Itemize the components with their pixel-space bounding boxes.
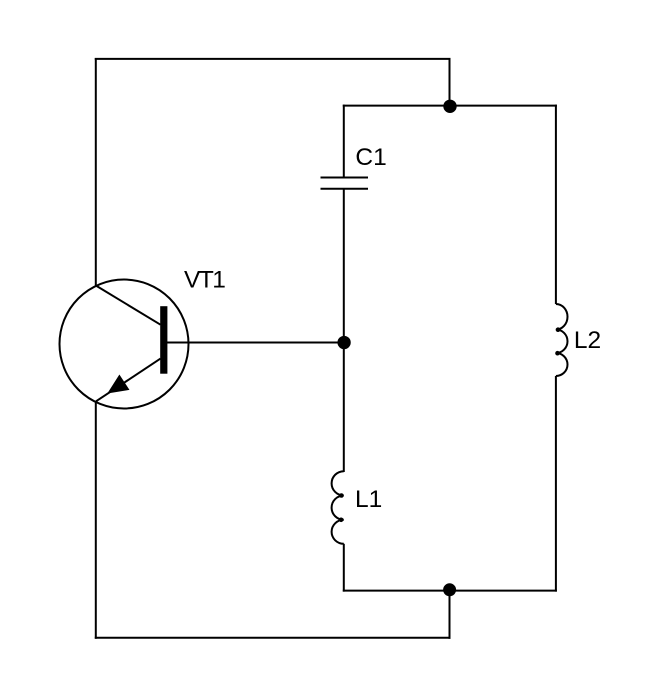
- capacitor C1 bottom plate: [321, 188, 369, 190]
- transistor VT1 base bar: [160, 306, 167, 374]
- wire: tank right branch from L2 down to bottom corner: [555, 376, 557, 592]
- node B: base junction dot: [337, 336, 350, 349]
- svg-text:C1: C1: [355, 144, 386, 171]
- node: top junction dot: [443, 100, 456, 113]
- transistor VT1 collector lead: [96, 286, 161, 325]
- wire: tank left branch from top corner down to C1 top plate: [343, 105, 345, 177]
- wire: tank left branch from C1 bottom plate down to node B: [343, 189, 345, 343]
- svg-text:L2: L2: [574, 327, 601, 354]
- wire: tank loop bottom horizontal: [343, 590, 557, 592]
- inductor L1 (three left-bulging petals): [332, 471, 344, 544]
- wire: outer loop top horizontal: [95, 58, 451, 60]
- svg-text:VT1: VT1: [184, 266, 225, 293]
- wire: tank left branch from node B down to L1: [343, 342, 345, 472]
- node: L1 upper cusp dot: [339, 493, 344, 498]
- node: L2 upper cusp dot: [556, 327, 561, 332]
- wire: tank left branch from L1 down to bottom corner: [343, 544, 345, 592]
- svg-text:L1: L1: [355, 486, 382, 513]
- transistor VT1 emitter lead: [96, 359, 161, 402]
- node: bottom junction dot: [443, 583, 456, 596]
- node: L2 lower cusp dot: [555, 351, 560, 356]
- wire: outer loop left vertical upper segment: [95, 58, 97, 287]
- wire: outer loop bottom horizontal: [95, 637, 451, 639]
- wire: base lead from VT1 to node B: [166, 342, 344, 344]
- wire: tank right branch from top corner down to L2: [555, 105, 557, 304]
- wire: riser from bottom tank node down to outer bottom wire: [449, 590, 451, 639]
- transistor VT1 emitter arrow: [109, 376, 128, 393]
- node: L1 lower cusp dot: [339, 518, 344, 523]
- wire: tank loop top horizontal: [343, 105, 557, 107]
- capacitor C1 top plate: [321, 177, 369, 179]
- wire: outer loop right drop from top wire to tank top node: [449, 58, 451, 106]
- wire: outer loop left vertical lower segment: [95, 401, 97, 639]
- transistor VT1 body circle: [60, 280, 189, 409]
- inductor L2 (three right-bulging petals): [556, 304, 568, 376]
